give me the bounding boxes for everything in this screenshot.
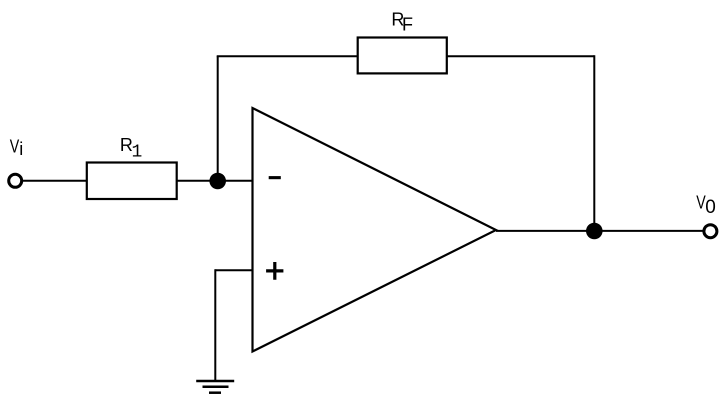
wire output <box>496 230 703 232</box>
pin minus <box>269 176 281 179</box>
wire input to R1 <box>23 180 87 182</box>
wire right corner down to node B <box>593 55 595 231</box>
resistor R1 <box>87 163 177 200</box>
wire plus input down to ground <box>214 269 216 381</box>
wire top left to RF <box>217 55 358 57</box>
wire R1 to inverting input <box>177 180 253 182</box>
wire RF to right corner <box>447 55 595 57</box>
svg-text:i: i <box>19 139 23 159</box>
svg-text:1: 1 <box>132 143 143 163</box>
node B junction dot <box>586 223 603 240</box>
resistor RF <box>358 38 447 74</box>
wire node A up <box>217 56 219 181</box>
svg-text:F: F <box>402 15 413 35</box>
svg-text:0: 0 <box>705 197 716 218</box>
pin plus <box>266 262 283 280</box>
ground <box>196 381 234 393</box>
output terminal Vo <box>704 225 717 238</box>
input terminal Vi <box>9 174 22 187</box>
op-amp U1 <box>253 108 497 352</box>
svg-text:V: V <box>696 192 706 212</box>
wire plus input horizontal <box>215 269 252 271</box>
node A junction dot <box>209 173 226 190</box>
svg-text:V: V <box>10 137 20 157</box>
